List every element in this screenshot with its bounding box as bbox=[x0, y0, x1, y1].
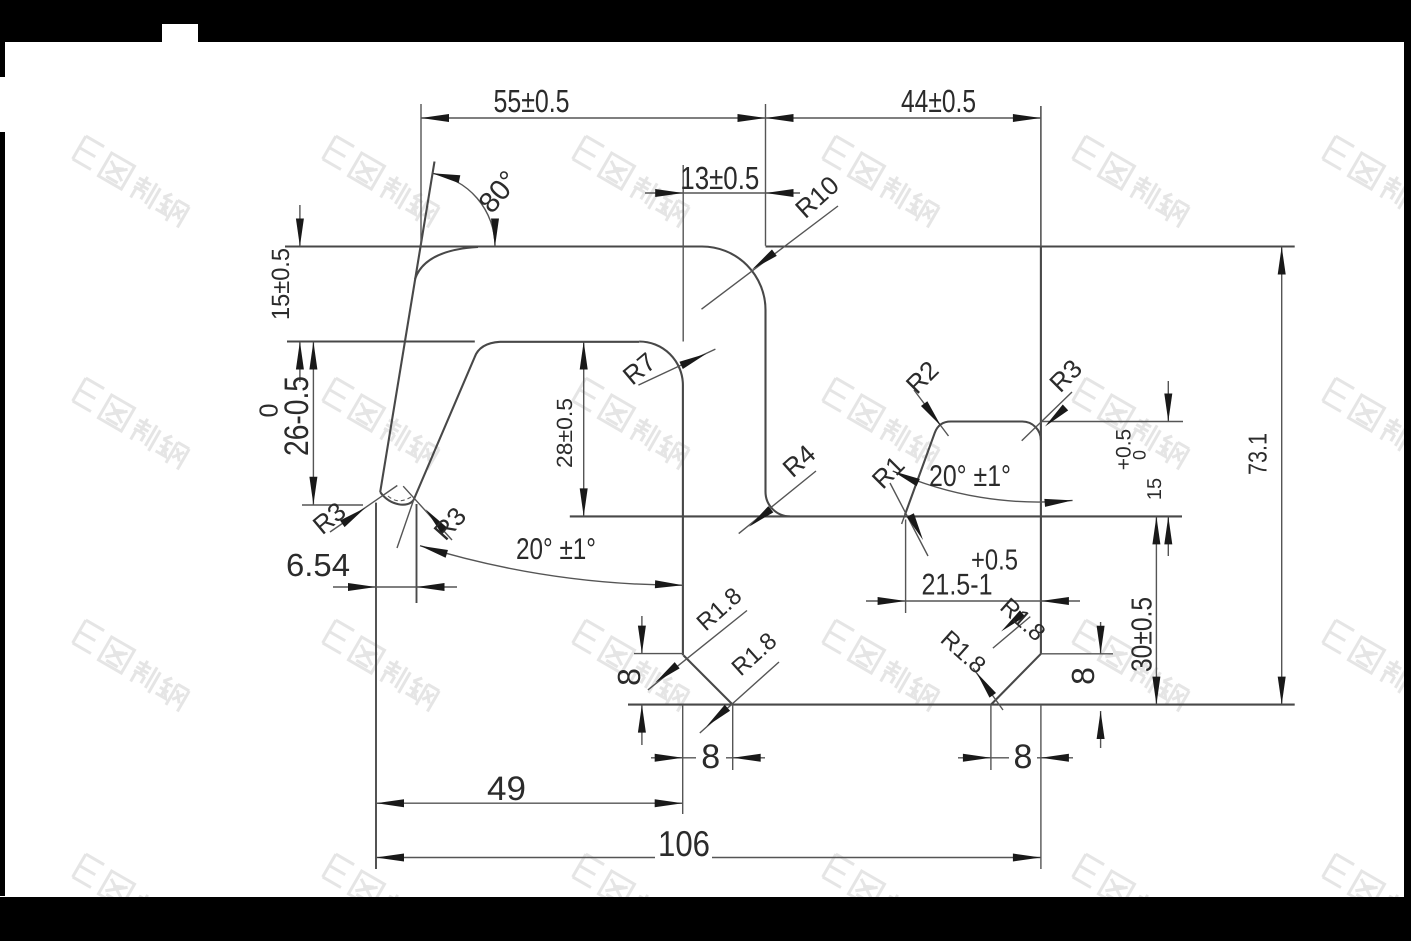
dim line 55/44 y118 bbox=[421, 117, 1041, 119]
step lip left bbox=[634, 653, 683, 655]
svg-text:6.54: 6.54 bbox=[286, 547, 350, 583]
arrow 20R right bbox=[1044, 496, 1073, 506]
ext vertical x765.5 (55/44/13) bbox=[765, 104, 767, 246]
dim line 30 x1156.4 bbox=[1155, 516, 1157, 704]
watermark row1 col4 bbox=[819, 136, 944, 227]
ext vertical x1040.9 top (44) bbox=[1040, 106, 1042, 247]
arrow R3 tongue bbox=[1042, 404, 1068, 429]
svg-text:55±0.5: 55±0.5 bbox=[494, 83, 570, 119]
leader R2 bbox=[914, 390, 949, 436]
bottom right chamfer bbox=[991, 654, 1041, 705]
arrow R1.8 L2 bbox=[704, 705, 730, 730]
dim line 15 left x299.9 bbox=[299, 205, 301, 382]
svg-text:73.1: 73.1 bbox=[1243, 433, 1273, 475]
svg-text:44±0.5: 44±0.5 bbox=[901, 83, 976, 119]
flange underside lip ext bbox=[287, 340, 475, 342]
arrow 8R bottom bbox=[1097, 711, 1105, 739]
tongue slant tail bbox=[902, 515, 905, 524]
watermark row2 col6 bbox=[1319, 378, 1411, 469]
ext x905.6 (21.5 left) bbox=[905, 520, 907, 614]
bottom edge bbox=[628, 704, 1295, 706]
left step chamfer bbox=[684, 655, 733, 704]
watermark row3 col1 bbox=[69, 620, 194, 711]
arrow 28 bottom bbox=[580, 488, 588, 516]
arrow 20L right bbox=[655, 580, 683, 589]
watermark row4 col5 bbox=[1069, 854, 1194, 945]
svg-text:20° ±1°: 20° ±1° bbox=[929, 460, 1011, 493]
leader R1 bbox=[890, 483, 928, 556]
arrow 73.1 top bbox=[1278, 247, 1286, 275]
arrow 6.54 right bbox=[417, 583, 445, 591]
watermark row1 col1 bbox=[69, 136, 194, 227]
svg-text:15: 15 bbox=[1144, 478, 1166, 500]
arrow R3 hook-right bbox=[423, 507, 448, 533]
watermark row2 col5 bbox=[1069, 378, 1194, 469]
hook outer slant 80deg bbox=[380, 162, 434, 493]
ext x682.7 below (8/49) bbox=[682, 705, 684, 814]
flange underside lip bbox=[500, 341, 639, 343]
ext vertical x421 (55 dim) bbox=[420, 104, 422, 247]
svg-text:21.5-1: 21.5-1 bbox=[922, 569, 993, 602]
svg-text:8: 8 bbox=[611, 668, 647, 686]
leader R1.8 right-lower bbox=[973, 668, 1003, 710]
leader R4 bbox=[739, 471, 816, 534]
dim line 13 y193 bbox=[645, 192, 800, 194]
dim line 6.54 y587 bbox=[333, 586, 457, 588]
arrow 30 bottom bbox=[1152, 677, 1160, 705]
arrow 28 top bbox=[580, 342, 588, 370]
svg-text:26-0.5: 26-0.5 bbox=[278, 376, 316, 456]
dim line 106 y857.5 bbox=[376, 857, 1041, 859]
ext y421.5 right (15) bbox=[1041, 421, 1183, 423]
dim line 21.5 y601 bbox=[866, 600, 1080, 602]
watermark row4 col3 bbox=[569, 854, 694, 945]
arrow R4 bbox=[746, 506, 773, 530]
watermark row3 col5 bbox=[1069, 620, 1194, 711]
arrow 6.54 left bbox=[348, 583, 376, 591]
ext x990.9 below (8 right) bbox=[990, 705, 992, 770]
top black bar bbox=[0, 0, 1411, 42]
watermark row4 col4 bbox=[819, 854, 944, 945]
arrow 106 right bbox=[1013, 854, 1041, 862]
dim line 26 x313.4 bbox=[312, 342, 314, 505]
leader R3 tongue bbox=[1022, 392, 1072, 441]
left black strip lower bbox=[0, 132, 5, 896]
arrow 20R left bbox=[891, 467, 920, 486]
arrow 49 right bbox=[655, 799, 683, 807]
part top edge left + R10 corner + slot right wall + R4 bbox=[285, 247, 790, 517]
arrow 49 left bbox=[376, 799, 404, 807]
svg-text:15±0.5: 15±0.5 bbox=[267, 248, 295, 320]
top-left vertex fillet bbox=[415, 247, 478, 279]
20deg angle arc left bbox=[420, 546, 683, 586]
dim line 8 bottom-left y757.8 bbox=[651, 757, 765, 759]
arrow R3 hook-left bbox=[340, 505, 368, 528]
arrow R2 bbox=[921, 401, 944, 428]
arrow 15R top bbox=[1164, 394, 1172, 422]
ext x376 (6.54/49/106 left) bbox=[375, 503, 377, 869]
arrow 26 bottom bbox=[309, 477, 317, 505]
bottom black bar bbox=[0, 897, 1411, 941]
svg-text:8: 8 bbox=[1065, 667, 1101, 685]
arrow 44 left bbox=[766, 114, 794, 122]
arrow 15L bottom bbox=[296, 342, 304, 370]
watermark row2 col1 bbox=[69, 378, 194, 469]
svg-text:13±0.5: 13±0.5 bbox=[680, 160, 759, 196]
watermark row2 col3 bbox=[569, 378, 694, 469]
watermark row2 col2 bbox=[319, 378, 444, 469]
arrow 8BR left bbox=[963, 754, 991, 762]
svg-text:28±0.5: 28±0.5 bbox=[552, 398, 577, 468]
arrow R1.8 L1 bbox=[653, 662, 680, 686]
ext x732.7 below (8) bbox=[732, 705, 734, 770]
leader R3 hook-left bbox=[330, 486, 397, 533]
dim line 49 y803.2 bbox=[376, 802, 683, 804]
80deg angle arc bbox=[432, 173, 495, 246]
svg-text:106: 106 bbox=[658, 823, 710, 864]
arrow 106 left bbox=[376, 854, 404, 862]
right black strip bbox=[1404, 0, 1411, 941]
arrow 55 left bbox=[421, 114, 449, 122]
watermark row2 col4 bbox=[819, 378, 944, 469]
arrow 8BL left bbox=[655, 754, 683, 762]
watermark row3 col6 bbox=[1319, 620, 1411, 711]
top bar white notch bbox=[162, 24, 198, 42]
part right edge (part weight) bbox=[1040, 247, 1042, 654]
arrow 20L left bbox=[419, 542, 448, 558]
arrow 30 top bbox=[1152, 516, 1160, 544]
ext x416.5 (6.54 right) bbox=[416, 504, 418, 603]
arrow 21.5 left bbox=[878, 597, 906, 605]
step lip right ext bbox=[1041, 653, 1113, 655]
watermark row1 col2 bbox=[319, 136, 444, 227]
part right edge bbox=[1040, 106, 1042, 654]
arrow 8L bottom bbox=[638, 705, 646, 733]
arrow 8L top bbox=[638, 626, 646, 654]
dim line 8 right x1100.6 bbox=[1100, 622, 1102, 748]
arrow 80 bottom bbox=[491, 219, 499, 247]
watermark row4 col2 bbox=[319, 854, 444, 945]
arrow 26 top bbox=[309, 342, 317, 370]
ext x1040.9 below (106/8) bbox=[1040, 705, 1042, 869]
dim line 8 left x641.9 bbox=[641, 616, 643, 745]
watermark row3 col3 bbox=[569, 620, 694, 711]
arrow R7 bbox=[679, 350, 708, 369]
svg-text:8: 8 bbox=[1014, 738, 1033, 776]
watermark row4 col1 bbox=[69, 854, 194, 945]
svg-text:0: 0 bbox=[254, 404, 284, 418]
watermark row3 col4 bbox=[819, 620, 944, 711]
ext y505 (26 dim bottom) bbox=[302, 504, 363, 506]
svg-text:49: 49 bbox=[487, 770, 526, 808]
svg-text:30±0.5: 30±0.5 bbox=[1127, 597, 1159, 672]
leader R3 hook-right bbox=[403, 486, 452, 540]
arrow R1 bbox=[907, 513, 927, 542]
arrow 8BL right bbox=[733, 754, 761, 762]
leader R1.8 right-upper bbox=[993, 617, 1030, 649]
watermark row1 col3 bbox=[569, 136, 694, 227]
svg-text:8: 8 bbox=[701, 738, 720, 776]
arrow 21.5 right bbox=[1041, 597, 1069, 605]
arrow 8BR right bbox=[1041, 754, 1069, 762]
watermark row3 col2 bbox=[319, 620, 444, 711]
leader R10 bbox=[702, 206, 839, 309]
hook U-turn bottom bbox=[380, 492, 413, 505]
arrow R1.8 RL bbox=[973, 670, 996, 697]
arrow 13 left bbox=[655, 189, 683, 197]
hook inner slant 20deg with rounded top bbox=[414, 342, 500, 500]
arrow R1.8 RU bbox=[999, 610, 1026, 634]
dim line 15 right x1168.3 bbox=[1167, 381, 1169, 556]
cavity right wall + R7 fillet bbox=[639, 342, 683, 656]
dim line 8 bottom-right y757.8 bbox=[958, 757, 1073, 759]
hook fillet indicator arc bbox=[388, 496, 411, 501]
dim line 28 x583.7 bbox=[583, 342, 585, 517]
dim line 73.1 x1281.7 bbox=[1281, 247, 1283, 705]
svg-text:20° ±1°: 20° ±1° bbox=[516, 533, 596, 566]
slant2 extension below hook bbox=[397, 500, 414, 548]
watermark row4 col6 bbox=[1319, 854, 1411, 945]
arrow 15L top bbox=[296, 219, 304, 247]
left black strip upper bbox=[0, 42, 5, 77]
arrow 55 right bbox=[738, 114, 766, 122]
part top edge right segment bbox=[766, 245, 1295, 247]
arrow 8R top bbox=[1097, 626, 1105, 654]
tongue profile with R2,R3 bbox=[905, 422, 1041, 515]
svg-text:+0.5: +0.5 bbox=[1113, 429, 1136, 470]
middle horizontal line bbox=[570, 515, 1182, 517]
arrow 80 top bbox=[431, 169, 460, 183]
watermark row1 col6 bbox=[1319, 136, 1411, 227]
leader R1.8 left-2 bbox=[700, 662, 779, 733]
arrow 73.1 bottom bbox=[1278, 677, 1286, 705]
20deg angle arc right bbox=[893, 471, 1073, 502]
leader R1.8 left-1 bbox=[648, 611, 747, 690]
leader R7 bbox=[638, 349, 715, 385]
arrow R10 bbox=[750, 249, 777, 272]
arrow 15R bottom bbox=[1164, 516, 1172, 544]
ext vertical x683.2 (13) bbox=[682, 165, 684, 342]
arrow 13 right bbox=[766, 189, 794, 197]
arrow 44 right bbox=[1013, 114, 1041, 122]
watermark row1 col5 bbox=[1069, 136, 1194, 227]
